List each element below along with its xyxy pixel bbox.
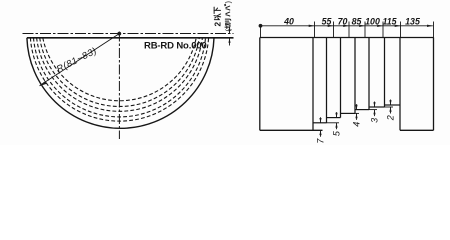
svg-text:100: 100 <box>365 16 380 26</box>
svg-text:135: 135 <box>405 16 420 26</box>
svg-text:2: 2 <box>214 22 223 27</box>
svg-text:RB-RD No.000: RB-RD No.000 <box>144 41 207 52</box>
svg-text:115: 115 <box>382 16 396 26</box>
svg-text:2: 2 <box>385 115 395 121</box>
svg-text:70: 70 <box>338 16 348 26</box>
svg-text:40: 40 <box>283 16 294 26</box>
svg-text:55: 55 <box>322 16 332 26</box>
svg-text:85: 85 <box>352 16 362 26</box>
svg-text:4: 4 <box>351 122 361 127</box>
svg-text:3: 3 <box>369 118 379 123</box>
svg-text:): ) <box>226 1 233 3</box>
